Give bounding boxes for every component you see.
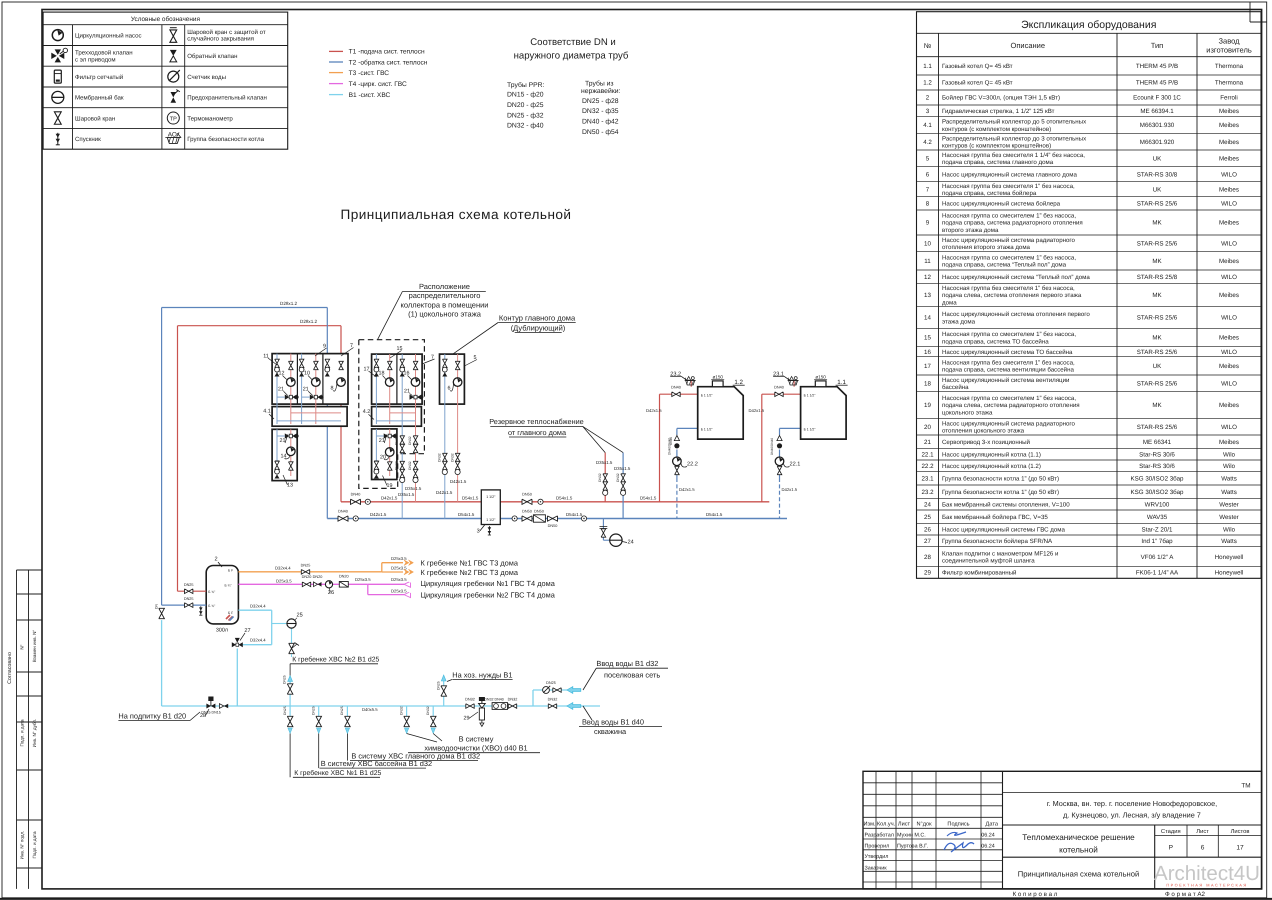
svg-text:21: 21 (303, 386, 309, 392)
valve on supply main DN40 (351, 499, 361, 504)
svg-text:Гидравлическая стрелка, 1 1/2”: Гидравлическая стрелка, 1 1/2” 125 кВт (942, 108, 1055, 115)
svg-text:M66301.930: M66301.930 (1140, 122, 1175, 129)
svg-text:Насосная группа без смесителя: Насосная группа без смесителя 1” без нас… (942, 285, 1075, 292)
wire box13 internal pair (276, 429, 278, 471)
pump 26 (325, 581, 332, 588)
valve boiler 1.1 supply DN40 (775, 392, 783, 397)
svg-text:подача справа, система вентиля: подача справа, система вентиляции бассей… (942, 367, 1075, 374)
svg-text:Р: Р (1169, 845, 1174, 852)
svg-text:Счетчик воды: Счетчик воды (187, 74, 226, 81)
svg-text:19: 19 (387, 483, 393, 489)
pump 22.2 boiler circulation (673, 457, 682, 466)
svg-text:Т1 -подача сист. теплосн: Т1 -подача сист. теплосн (349, 49, 425, 56)
svg-text:300л: 300л (216, 628, 228, 634)
svg-text:9: 9 (926, 220, 930, 227)
three-way valve 21 with servo (285, 433, 299, 438)
svg-text:Кол.уч.: Кол.уч. (877, 822, 896, 828)
wire B1 cold water main (162, 705, 600, 707)
svg-text:Циркуляция гребенки №1 ГВС Т4: Циркуляция гребенки №1 ГВС Т4 дома (421, 579, 556, 588)
svg-text:24: 24 (628, 540, 634, 546)
svg-text:06.24: 06.24 (981, 843, 995, 849)
svg-text:Т2 -обратка сист. теплосн: Т2 -обратка сист. теплосн (349, 59, 428, 66)
svg-text:Лист: Лист (898, 822, 911, 828)
pump 18 (385, 378, 394, 387)
svg-text:D42x1.5: D42x1.5 (679, 487, 695, 492)
svg-text:3: 3 (477, 528, 480, 534)
svg-text:15: 15 (924, 335, 931, 342)
svg-text:Изм.: Изм. (864, 822, 876, 828)
svg-text:второго этажа дома: второго этажа дома (942, 227, 999, 234)
svg-text:Соответствие DN и: Соответствие DN и (530, 37, 616, 48)
svg-text:Группа безопасности котла 1” (: Группа безопасности котла 1” (до 50 кВт) (942, 476, 1059, 483)
svg-text:21: 21 (379, 438, 385, 444)
svg-text:этажа дома: этажа дома (942, 318, 976, 325)
svg-text:17: 17 (924, 363, 931, 370)
svg-text:DN32 - ф35: DN32 - ф35 (582, 108, 619, 115)
svg-text:К гребенке ХВС №1 В1 d25: К гребенке ХВС №1 В1 d25 (294, 769, 381, 777)
svg-text:бассейна: бассейна (942, 384, 969, 391)
svg-text:Meibes: Meibes (1219, 335, 1239, 342)
svg-text:19: 19 (924, 402, 931, 409)
svg-text:Утвердил: Утвердил (865, 854, 889, 860)
svg-text:Подпись: Подпись (947, 822, 969, 828)
svg-text:Согласовано: Согласовано (7, 652, 13, 684)
svg-text:DN40: DN40 (774, 386, 784, 390)
svg-text:Т4 -цирк. сист. ГВС: Т4 -цирк. сист. ГВС (349, 81, 407, 88)
svg-text:Насос циркуляционный система г: Насос циркуляционный система главного до… (942, 171, 1078, 178)
svg-text:Б ¾”: Б ¾” (208, 590, 215, 594)
svg-text:Насос циркуляционный система Т: Насос циркуляционный система ТО бассейна (942, 349, 1073, 356)
svg-text:Б 1 1/2”: Б 1 1/2” (804, 394, 816, 398)
svg-text:Сервопривод 3-х позиционный: Сервопривод 3-х позиционный (942, 439, 1030, 446)
svg-text:Пуртова В.Г.: Пуртова В.Г. (897, 843, 928, 849)
svg-text:Циркуляция гребенки №2 ГВС Т4: Циркуляция гребенки №2 ГВС Т4 дома (421, 591, 556, 600)
svg-text:D42x1.5: D42x1.5 (436, 490, 453, 495)
safety group 23.2 (690, 381, 692, 387)
valve before filter DN32 (466, 704, 474, 709)
svg-text:DN32: DN32 (408, 436, 412, 445)
svg-text:ТМ: ТМ (1241, 783, 1250, 790)
svg-text:скважина: скважина (594, 727, 627, 736)
svg-text:Группа безопасности бойлера SF: Группа безопасности бойлера SFR/NA (942, 538, 1053, 545)
svg-text:Листов: Листов (1231, 829, 1250, 835)
valve drop 24 (601, 529, 606, 537)
membrane tank 24 (610, 534, 622, 546)
svg-text:В1 -сист. ХВС: В1 -сист. ХВС (349, 92, 391, 99)
svg-text:Ferroli: Ferroli (1220, 95, 1238, 102)
valve T4 DN20 (302, 582, 310, 587)
svg-text:6: 6 (1201, 845, 1205, 852)
svg-text:D42x1.5: D42x1.5 (646, 408, 662, 413)
svg-text:4.2: 4.2 (363, 409, 371, 415)
svg-text:22.1: 22.1 (790, 461, 801, 467)
svg-text:Ind 1” 7бар: Ind 1” 7бар (1141, 538, 1173, 545)
thermomanometer (353, 516, 358, 521)
svg-text:Насосная группа со смесителем: Насосная группа со смесителем 1” без нас… (942, 213, 1076, 220)
svg-text:Группа безопасности котла 1” (: Группа безопасности котла 1” (до 50 кВт) (942, 489, 1059, 496)
svg-text:поселковая сеть: поселковая сеть (604, 670, 660, 679)
svg-text:D54x1.5: D54x1.5 (556, 495, 573, 500)
wire T4 DHW circulation (238, 583, 367, 585)
three-way valve 21 with servo (410, 395, 424, 400)
svg-text:Трубы из: Трубы из (585, 81, 614, 88)
svg-text:DN32: DN32 (408, 461, 412, 470)
svg-text:D25x3.5: D25x3.5 (355, 577, 371, 582)
svg-text:06.24: 06.24 (981, 833, 995, 839)
svg-text:MK: MK (1152, 292, 1162, 299)
svg-text:Т3 -сист. ГВС: Т3 -сист. ГВС (349, 70, 390, 77)
svg-text:STAR-RS 25/6: STAR-RS 25/6 (1137, 349, 1178, 356)
svg-text:WILO: WILO (1221, 381, 1237, 388)
svg-text:21: 21 (404, 389, 410, 395)
svg-text:Star-RS 30/6: Star-RS 30/6 (1139, 451, 1175, 458)
svg-text:D40x5.5: D40x5.5 (362, 707, 378, 712)
svg-text:WILO: WILO (1221, 241, 1237, 248)
svg-text:DN32: DN32 (438, 453, 442, 462)
riser isolating valves (413, 436, 418, 444)
svg-text:Б 1 1/2”: Б 1 1/2” (701, 428, 713, 432)
svg-text:Газовый котел Q= 45 кВт: Газовый котел Q= 45 кВт (942, 80, 1013, 87)
svg-text:Насос циркуляционный система “: Насос циркуляционный система “Теплый пол… (942, 274, 1090, 281)
svg-text:DN32: DN32 (598, 473, 602, 482)
collector 4.1 (272, 407, 347, 427)
svg-text:Распределительный коллектор до: Распределительный коллектор до 5 отопите… (942, 119, 1086, 126)
svg-text:Wilo: Wilo (1223, 463, 1236, 470)
svg-text:DN40/DN40: DN40/DN40 (770, 438, 774, 455)
svg-text:23.2: 23.2 (921, 489, 934, 496)
svg-text:Обратный клапан: Обратный клапан (187, 53, 237, 60)
svg-text:Завод: Завод (1219, 37, 1241, 46)
svg-text:1.2: 1.2 (923, 80, 932, 87)
svg-text:Насос циркуляционный котла (1.: Насос циркуляционный котла (1.1) (942, 451, 1041, 458)
check valve lower box blue (374, 461, 379, 465)
svg-text:21: 21 (278, 386, 284, 392)
svg-text:DN32 DN40: DN32 DN40 (484, 698, 503, 702)
svg-text:Насос циркуляционный система р: Насос циркуляционный система радиаторног… (942, 237, 1076, 244)
svg-text:1 1/2”: 1 1/2” (486, 518, 496, 522)
svg-text:DN25: DN25 (283, 675, 287, 684)
safety group 23.1 (793, 381, 795, 387)
valve lower box supply (387, 462, 392, 470)
wire B1 branch down (432, 706, 434, 727)
hydraulic separator 3 (481, 490, 500, 525)
reserve riser valves (603, 474, 608, 482)
valve on supply main DN50 (522, 499, 532, 504)
riser valves house circuit (443, 453, 448, 461)
svg-text:ME 66341: ME 66341 (1143, 439, 1172, 446)
svg-text:MK: MK (1152, 335, 1162, 342)
svg-text:Watts: Watts (1221, 538, 1237, 545)
wire T1 top supply house loop (178, 325, 342, 327)
svg-text:DN25 - ф28: DN25 - ф28 (582, 98, 619, 105)
svg-text:В систему ХВС бассейна В1 d32: В систему ХВС бассейна В1 d32 (321, 759, 432, 768)
svg-text:подача справа, система “Теплый: подача справа, система “Теплый пол” дома (942, 262, 1067, 269)
svg-text:DN32: DN32 (395, 436, 399, 445)
svg-text:подача справа, система радиато: подача справа, система радиаторного отоп… (942, 220, 1083, 227)
svg-text:Стадия: Стадия (1161, 828, 1181, 835)
svg-text:Meibes: Meibes (1219, 292, 1239, 299)
svg-text:STAR-RS 25/6: STAR-RS 25/6 (1137, 241, 1178, 248)
svg-text:DN15 - ф20: DN15 - ф20 (507, 92, 544, 99)
svg-text:VF06 1/2” A: VF06 1/2” A (1141, 554, 1175, 561)
svg-text:случайного закрывания: случайного закрывания (187, 36, 254, 43)
svg-text:DN25: DN25 (301, 564, 311, 568)
svg-text:7: 7 (926, 186, 930, 193)
svg-text:D35x1.5: D35x1.5 (614, 466, 631, 471)
wire return boiler 1.1 (780, 427, 801, 429)
wire to expansion tank 25 (272, 623, 287, 625)
svg-text:подача справа, система главног: подача справа, система главного дома (942, 159, 1054, 166)
svg-text:DN40: DN40 (338, 509, 348, 513)
svg-text:THERM 45 P/B: THERM 45 P/B (1136, 63, 1178, 70)
svg-text:DN25: DN25 (546, 681, 556, 685)
svg-text:UK: UK (1153, 156, 1162, 163)
pump group box 17/15 (372, 354, 423, 404)
svg-text:изготовитель: изготовитель (1206, 46, 1252, 55)
wire B1 branch down (406, 706, 408, 727)
svg-text:DN50: DN50 (548, 524, 558, 528)
svg-text:D54x1.5: D54x1.5 (640, 495, 657, 500)
svg-text:WILO: WILO (1221, 201, 1237, 208)
svg-text:Насос циркуляционный котла (1.: Насос циркуляционный котла (1.2) (942, 463, 1041, 470)
valve boiler 1.2 supply DN40 (672, 392, 680, 397)
svg-text:Б 1 1/2”: Б 1 1/2” (804, 428, 816, 432)
svg-text:28: 28 (200, 713, 206, 719)
svg-text:24: 24 (924, 501, 931, 508)
svg-text:Принципиальная схема котельной: Принципиальная схема котельной (341, 207, 572, 222)
svg-text:18: 18 (379, 371, 385, 377)
svg-text:D25x3.5: D25x3.5 (391, 588, 407, 593)
svg-text:WILO: WILO (1221, 349, 1237, 356)
svg-text:12: 12 (279, 371, 285, 377)
svg-text:Насос циркуляционный система б: Насос циркуляционный система бойлера (942, 201, 1061, 208)
valve group at pump station top (275, 359, 280, 376)
svg-text:D54x1.5: D54x1.5 (458, 512, 475, 517)
wire village network inlet (532, 690, 534, 706)
svg-text:STAR-RS 25/6: STAR-RS 25/6 (1137, 381, 1178, 388)
svg-text:На хоз. нужды В1: На хоз. нужды В1 (452, 670, 512, 679)
wire reserve return riser (622, 453, 624, 519)
svg-text:D54x1.5: D54x1.5 (566, 512, 583, 517)
svg-text:13: 13 (924, 292, 931, 299)
svg-text:К о п и р о в а л: К о п и р о в а л (1013, 891, 1058, 898)
svg-text:Б ¾”: Б ¾” (225, 584, 232, 588)
svg-text:22.2: 22.2 (921, 463, 934, 470)
svg-text:Шаровой кран: Шаровой кран (75, 115, 115, 122)
svg-text:KSG 30/ISO2 3бар: KSG 30/ISO2 3бар (1131, 476, 1184, 483)
svg-text:Б ¾”: Б ¾” (208, 604, 215, 608)
svg-text:29: 29 (464, 716, 470, 722)
svg-text:6: 6 (926, 171, 930, 178)
svg-text:Мухин М.С.: Мухин М.С. (897, 833, 926, 839)
valve group at pump station top (442, 359, 447, 376)
svg-text:Б 1 1/2”: Б 1 1/2” (701, 394, 713, 398)
svg-text:Wilo: Wilo (1223, 526, 1236, 533)
arrow T3 line1 (404, 560, 414, 566)
svg-text:STAR-RS 25/6: STAR-RS 25/6 (1137, 201, 1178, 208)
svg-text:DN32: DN32 (616, 473, 620, 482)
svg-text:Лист: Лист (1196, 829, 1209, 835)
valve group at pump station top (374, 359, 379, 376)
svg-text:DN25: DN25 (283, 706, 287, 715)
pump group box 13 (272, 429, 297, 480)
svg-text:WAV35: WAV35 (1147, 514, 1168, 521)
svg-text:На подпитку В1 d20: На подпитку В1 d20 (118, 711, 186, 720)
pump group box 5 (440, 354, 465, 404)
thermomanometer (538, 499, 543, 504)
riser valves house circuit (455, 453, 460, 461)
wire T2 from tank (162, 604, 207, 606)
svg-text:Мембранный бак: Мембранный бак (75, 95, 124, 102)
svg-text:отопления цокольного этажа: отопления цокольного этажа (942, 427, 1025, 434)
svg-text:D32x4.4: D32x4.4 (250, 638, 266, 643)
valve group at pump station top (325, 359, 330, 376)
svg-text:Ф о р м а т А2: Ф о р м а т А2 (1165, 891, 1206, 898)
svg-text:Экспликация оборудования: Экспликация оборудования (1021, 19, 1156, 31)
svg-text:Ввод воды В1 d32: Ввод воды В1 d32 (596, 659, 658, 668)
svg-text:котельной: котельной (1059, 846, 1098, 855)
svg-text:UK: UK (1153, 363, 1162, 370)
svg-text:D42x1.5: D42x1.5 (370, 512, 387, 517)
svg-text:Wester: Wester (1219, 501, 1238, 508)
svg-text:16: 16 (924, 349, 931, 356)
svg-text:Wester: Wester (1219, 514, 1238, 521)
arrow inlet d32 (567, 687, 581, 694)
svg-text:Подп. и дата: Подп. и дата (20, 719, 25, 747)
water meter on inlet (543, 686, 551, 694)
collector 4.2 internal return (376, 420, 415, 422)
svg-text:5: 5 (926, 156, 930, 163)
svg-text:8: 8 (926, 201, 930, 208)
three-way valve 21 with servo (285, 395, 299, 400)
svg-text:Meibes: Meibes (1219, 258, 1239, 265)
svg-text:DN20: DN20 (313, 575, 323, 579)
valve make-up DN15 (159, 608, 165, 618)
svg-text:D32x4.4: D32x4.4 (250, 604, 266, 609)
svg-text:10: 10 (924, 241, 931, 248)
arrow T4 line2 (404, 589, 415, 598)
svg-text:Meibes: Meibes (1219, 363, 1239, 370)
svg-text:Предохранительный клапан: Предохранительный клапан (187, 95, 267, 102)
valve on return main (548, 516, 558, 521)
thermomanometer (581, 516, 586, 521)
svg-text:DN20 - ф25: DN20 - ф25 (507, 102, 544, 109)
svg-text:1 1/2”: 1 1/2” (486, 495, 496, 499)
safety valve below tank 25 (289, 643, 295, 653)
svg-text:25: 25 (924, 514, 931, 521)
valve lower box supply (289, 462, 294, 470)
svg-text:11: 11 (924, 258, 931, 265)
svg-text:21: 21 (924, 439, 931, 446)
svg-text:29: 29 (924, 570, 931, 577)
svg-text:1.1: 1.1 (923, 63, 932, 70)
collector 4.2 (372, 407, 422, 427)
svg-text:D28x1.2: D28x1.2 (280, 301, 298, 306)
wire branch to HVS manifold 2 (289, 681, 291, 706)
svg-text:D54x1.5: D54x1.5 (462, 495, 479, 500)
svg-text:WILO: WILO (1221, 171, 1237, 178)
collector 4.1 internal supply (291, 412, 341, 414)
svg-text:DN25 - ф32: DN25 - ф32 (507, 112, 544, 119)
svg-text:Инв. N° подл.: Инв. N° подл. (20, 831, 25, 860)
svg-text:D35x1.5: D35x1.5 (405, 486, 422, 491)
svg-text:4.1: 4.1 (263, 409, 271, 415)
svg-text:D42x1.5: D42x1.5 (381, 495, 398, 500)
svg-text:DN25: DN25 (184, 583, 194, 587)
svg-text:распределительного: распределительного (409, 291, 481, 300)
svg-text:подача справа, система ТО басс: подача справа, система ТО бассейна (942, 338, 1049, 345)
filter on return main (533, 515, 545, 522)
svg-text:контуров (с комплектом кронште: контуров (с комплектом кронштейнов) (942, 142, 1051, 149)
svg-text:коллектора в помещении: коллектора в помещении (400, 300, 488, 309)
svg-text:N°док: N°док (916, 822, 932, 828)
svg-text:Ввод воды В1 d40: Ввод воды В1 d40 (582, 717, 644, 726)
svg-text:В систему: В систему (459, 734, 494, 743)
svg-text:D42x1.5: D42x1.5 (450, 479, 467, 484)
svg-text:DN50: DN50 (522, 493, 532, 497)
svg-text:с эл приводом: с эл приводом (75, 56, 116, 63)
boiler 1.2 (698, 387, 744, 439)
pump 12 (287, 378, 296, 387)
pump group box 19 (372, 429, 397, 480)
svg-text:Тип: Тип (1151, 41, 1164, 50)
valve tank supply DN25 (185, 589, 193, 594)
svg-text:Описание: Описание (1010, 41, 1045, 50)
svg-text:MK: MK (1152, 258, 1162, 265)
svg-text:D25x3.5: D25x3.5 (276, 579, 292, 584)
valve T4 after pump (339, 582, 348, 588)
wire T1 into tank (178, 590, 207, 592)
svg-text:STAR-RS 30/8: STAR-RS 30/8 (1137, 171, 1178, 178)
svg-text:Циркуляционный насос: Циркуляционный насос (75, 32, 142, 39)
svg-text:18: 18 (924, 381, 931, 388)
svg-text:Газовый котел Q= 45 кВт: Газовый котел Q= 45 кВт (942, 63, 1013, 70)
svg-text:К гребенке №1 ГВС Т3 дома: К гребенке №1 ГВС Т3 дома (421, 558, 519, 567)
svg-text:D54x1.5: D54x1.5 (706, 512, 723, 517)
svg-text:Honeywell: Honeywell (1215, 554, 1244, 561)
svg-text:DN20: DN20 (302, 575, 312, 579)
svg-text:26: 26 (328, 590, 334, 596)
svg-text:Насос циркуляционный системы Г: Насос циркуляционный системы ГВС дома (942, 526, 1065, 533)
svg-text:3: 3 (926, 108, 930, 115)
svg-text:DN50: DN50 (534, 509, 544, 513)
wire T3 DHW supply (238, 571, 381, 573)
svg-text:Meibes: Meibes (1219, 122, 1239, 129)
wire B1 branch down (289, 706, 291, 727)
dashed boundary basement collector room (359, 340, 425, 489)
svg-text:Thermona: Thermona (1215, 80, 1244, 87)
check valve lower box blue (275, 461, 280, 465)
wire supply riser boiler 1.1 (761, 394, 763, 502)
svg-text:ME 66394.1: ME 66394.1 (1140, 108, 1174, 115)
pump 16 (411, 378, 420, 387)
wire T2 return main (327, 518, 787, 520)
svg-text:ТР: ТР (170, 116, 177, 122)
reserve riser valves (621, 474, 626, 482)
svg-text:Б F: Б F (228, 611, 233, 615)
svg-text:дома: дома (942, 299, 957, 306)
valve after unit (508, 704, 516, 709)
svg-text:Насос циркуляционный система о: Насос циркуляционный система отопления п… (942, 311, 1090, 318)
svg-text:23.1: 23.1 (921, 476, 934, 483)
svg-text:14: 14 (924, 315, 931, 322)
valve group at pump station top (400, 359, 405, 376)
tank coil mark (226, 615, 233, 621)
svg-text:MK: MK (1152, 220, 1162, 227)
svg-text:Meibes: Meibes (1219, 139, 1239, 146)
svg-text:Honeywell: Honeywell (1215, 570, 1244, 577)
valve T3 DN25 (301, 570, 309, 575)
